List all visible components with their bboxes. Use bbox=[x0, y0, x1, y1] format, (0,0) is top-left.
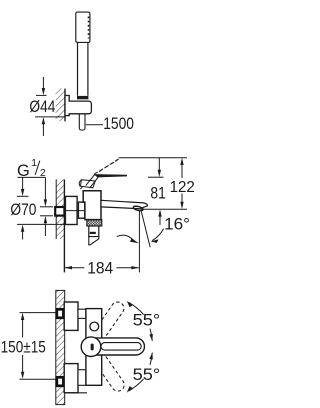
lever pivot bbox=[81, 337, 101, 357]
svg-text:16°: 16° bbox=[164, 215, 190, 233]
svg-text:Ø70: Ø70 bbox=[10, 201, 36, 219]
lower union stub (top view) bbox=[57, 377, 64, 386]
union nut (side view) bbox=[78, 202, 85, 218]
wall hatch (shower holder) bbox=[56, 89, 65, 122]
angle arc right bbox=[152, 229, 164, 241]
dimension 16 degrees bbox=[138, 211, 140, 273]
lower connection pipe bbox=[78, 370, 86, 386]
shower holder bbox=[65, 96, 91, 116]
svg-text:81: 81 bbox=[150, 184, 165, 203]
svg-text:184: 184 bbox=[87, 258, 113, 277]
outlet slot bbox=[90, 232, 96, 234]
upper escutcheon (top view) bbox=[64, 302, 78, 330]
svg-text:1500: 1500 bbox=[103, 114, 134, 133]
spout bbox=[101, 200, 147, 208]
dimension Ø70 bbox=[17, 177, 65, 239]
spout angle line bbox=[141, 210, 150, 247]
swing arc upper bbox=[129, 302, 153, 341]
lever bar inner slot bbox=[101, 343, 141, 351]
svg-text:55°: 55° bbox=[133, 312, 161, 330]
dimension 184 bbox=[65, 267, 139, 269]
escutcheon (side view) bbox=[65, 196, 77, 224]
aerator bbox=[133, 205, 144, 211]
lever open position upper (dashed) bbox=[89, 300, 127, 347]
wall hatch (top view) bbox=[56, 290, 65, 404]
angle leader left bbox=[117, 235, 134, 240]
svg-text:2: 2 bbox=[40, 168, 46, 179]
svg-text:G: G bbox=[17, 162, 30, 180]
shower outlet bbox=[89, 226, 99, 237]
lever neck edges bbox=[86, 175, 98, 189]
lever (closed) bbox=[93, 174, 127, 177]
dimension G1/2 bbox=[18, 177, 54, 236]
hose connector nut bbox=[77, 96, 88, 99]
dimension 1500 leader bbox=[86, 124, 103, 126]
G1/2 pipe stub (side view) bbox=[55, 207, 64, 216]
lower union base line bbox=[64, 392, 87, 394]
mixer body (top view) bbox=[86, 309, 102, 386]
wall hatch (mixer side view) bbox=[56, 180, 64, 273]
lever base left bump bbox=[79, 180, 82, 187]
hand shower head bbox=[76, 12, 90, 42]
dimension 81 bbox=[148, 158, 164, 225]
lever open position lower (dashed) bbox=[89, 347, 127, 394]
shower hose bbox=[79, 114, 85, 130]
pipe stub line bbox=[64, 210, 86, 212]
svg-text:55°: 55° bbox=[133, 366, 161, 384]
svg-text:1: 1 bbox=[31, 158, 37, 169]
hand shower handle bbox=[78, 42, 88, 95]
dimension Ø44 bbox=[35, 77, 65, 136]
outlet nipple bbox=[89, 237, 99, 245]
swing arc lower bbox=[129, 353, 153, 392]
diverter knurl bbox=[87, 220, 102, 226]
upper union stub (top view) bbox=[57, 309, 64, 318]
lever (open, dashed) bbox=[80, 159, 118, 189]
mixer body (side view) bbox=[83, 191, 101, 220]
upper connection pipe bbox=[78, 309, 86, 318]
spray face dots bbox=[88, 17, 90, 39]
svg-text:122: 122 bbox=[170, 179, 195, 196]
lower escutcheon (top view) bbox=[64, 364, 78, 393]
dimension 150 plus-minus 15 bbox=[20, 313, 56, 380]
pivot slot bbox=[91, 344, 94, 351]
lever bar (top view) bbox=[93, 338, 144, 355]
lever base plate bbox=[81, 180, 96, 188]
svg-text:150±15: 150±15 bbox=[1, 339, 46, 357]
svg-text:Ø44: Ø44 bbox=[29, 98, 55, 116]
diverter circle (top view) bbox=[90, 322, 99, 331]
dimension 122 bbox=[119, 158, 187, 210]
